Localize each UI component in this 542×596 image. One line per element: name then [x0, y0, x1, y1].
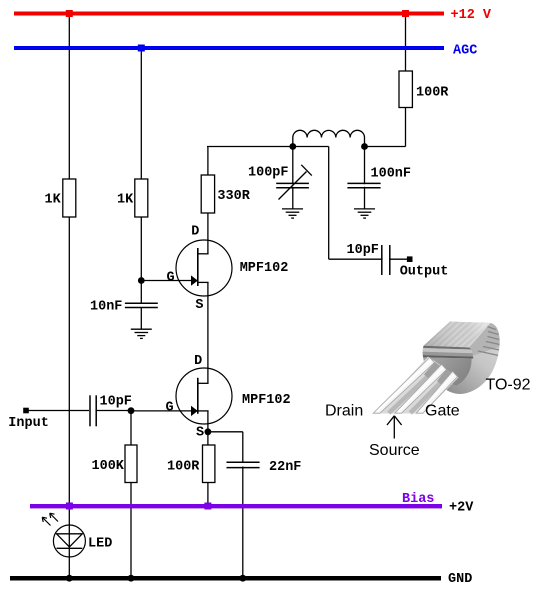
svg-text:S: S [196, 426, 204, 441]
wire [329, 258, 410, 260]
TO-92 legs [375, 357, 459, 414]
arrow to Source leg [387, 416, 402, 439]
GND rail [10, 576, 441, 581]
svg-text:S: S [195, 298, 203, 313]
svg-text:AGC: AGC [453, 44, 477, 59]
svg-text:100R: 100R [167, 460, 200, 475]
Bias rail [30, 504, 442, 508]
svg-text:LED: LED [88, 537, 112, 552]
capacitor C1 10nF [124, 303, 159, 307]
svg-text:330R: 330R [217, 189, 250, 204]
capacitor C2 100pF variable [276, 165, 312, 200]
wire [328, 147, 330, 260]
ground (100pF) [282, 209, 303, 218]
svg-text:Gate: Gate [425, 403, 460, 420]
node: GND junction 3 [239, 575, 246, 582]
wire [97, 410, 132, 412]
resistor R1 1K [63, 179, 76, 217]
svg-text:G: G [167, 271, 175, 286]
ground (10nF) [131, 329, 152, 338]
svg-text:22nF: 22nF [269, 460, 301, 475]
node: Bias junction left [66, 503, 73, 510]
svg-text:100pF: 100pF [248, 166, 289, 181]
resistor R3 330R [201, 175, 214, 213]
wire [207, 147, 209, 254]
svg-text:1K: 1K [45, 193, 62, 208]
node: AGC junction [138, 45, 145, 52]
node: gate 2 junction [128, 407, 135, 414]
resistor R2 1K [135, 179, 148, 217]
svg-text:MPF102: MPF102 [240, 261, 289, 276]
inductor L1 [293, 130, 365, 146]
capacitor C6 22nF [226, 462, 260, 467]
svg-text:D: D [191, 225, 199, 240]
transistor Q2 MPF102 (lower JFET) [176, 368, 232, 424]
wire [242, 432, 244, 578]
svg-text:+12 V: +12 V [451, 8, 492, 23]
node: source 2 junction [205, 428, 212, 435]
capacitor C3 100nF [347, 183, 382, 187]
svg-text:Bias: Bias [402, 492, 434, 507]
wire [207, 282, 209, 383]
svg-text:Input: Input [8, 416, 49, 431]
resistor R4 100R (top) [399, 71, 412, 108]
svg-text:+2V: +2V [449, 501, 474, 516]
svg-text:Drain: Drain [325, 403, 363, 420]
wire [26, 410, 89, 412]
wire [405, 15, 407, 147]
transistor Q1 MPF102 (upper JFET) [176, 240, 232, 296]
svg-text:MPF102: MPF102 [242, 393, 291, 408]
capacitor C5 10pF input [90, 395, 96, 426]
wire [141, 280, 198, 282]
wire [68, 506, 70, 576]
node: output terminal [407, 256, 413, 262]
AGC rail [14, 46, 444, 50]
+12V rail [14, 12, 444, 16]
wire [207, 411, 209, 506]
wire [364, 147, 366, 209]
node: GND junction 1 [66, 575, 73, 582]
svg-text:G: G [166, 401, 174, 416]
svg-text:10nF: 10nF [90, 300, 122, 315]
svg-text:Source: Source [369, 442, 420, 459]
svg-text:1K: 1K [117, 193, 134, 208]
node: +12V junction right [402, 10, 409, 17]
wire [207, 146, 329, 148]
svg-text:D: D [194, 354, 202, 369]
TO-92 package illustration [373, 318, 504, 414]
wire [140, 307, 142, 329]
wire [130, 411, 132, 579]
svg-text:10pF: 10pF [100, 395, 132, 410]
node: input terminal [23, 408, 29, 414]
svg-text:100R: 100R [416, 86, 449, 101]
svg-text:10pF: 10pF [347, 243, 379, 258]
node: tank left junction [289, 143, 296, 150]
wire [68, 15, 70, 506]
svg-text:TO-92: TO-92 [486, 377, 531, 394]
resistor R6 100R (source) [203, 445, 215, 483]
node: Bias junction right [204, 503, 211, 510]
svg-text:Output: Output [400, 265, 449, 280]
LED D1 [42, 513, 85, 557]
node: GND junction 2 [128, 575, 135, 582]
svg-text:100K: 100K [92, 459, 125, 474]
wire [140, 49, 142, 303]
wire [208, 431, 243, 433]
resistor R5 100K [125, 445, 137, 483]
wire [365, 146, 406, 148]
svg-text:GND: GND [448, 572, 472, 587]
capacitor C4 10pF output [382, 245, 390, 275]
svg-text:100nF: 100nF [371, 167, 412, 182]
wire [131, 410, 198, 412]
node: tank right junction [361, 143, 368, 150]
ground (100nF) [354, 209, 375, 218]
wire [292, 147, 294, 209]
node: gate 1 junction [138, 277, 145, 284]
node: +12V junction left [66, 10, 73, 17]
